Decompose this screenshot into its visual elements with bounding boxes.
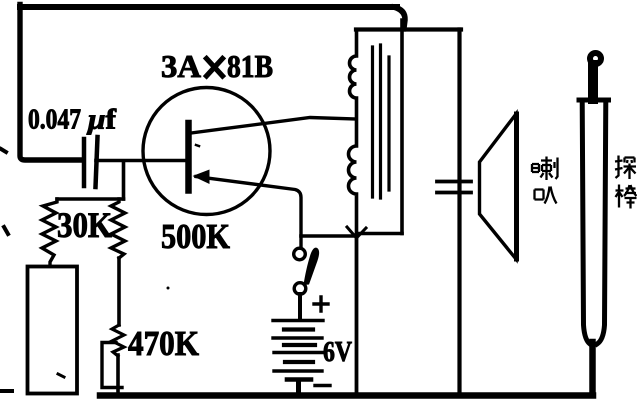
transistor Q1 emitter line bbox=[196, 177, 301, 249]
resistor R3 470K zigzag bbox=[112, 325, 124, 356]
wire: probe tip to bottom rail bbox=[589, 342, 596, 394]
speaker LS1 terminal lines bbox=[437, 180, 471, 184]
transistor Q1 circle bbox=[143, 88, 270, 215]
scan speck dot below 30K bbox=[167, 287, 170, 290]
wire: left frame vertical bbox=[20, 5, 82, 161]
resistor R1 30K zigzag bbox=[42, 199, 57, 266]
svg-text:3A: 3A bbox=[161, 48, 201, 84]
label probe (tan) bbox=[615, 156, 636, 180]
scan speck left edge lower bbox=[4, 227, 8, 234]
wire: branch horizontal to 30K bbox=[57, 197, 124, 201]
junction Y serif at transformer bottom bbox=[347, 227, 366, 238]
transistor Q1 base bar bbox=[185, 123, 192, 191]
svg-text:470K: 470K bbox=[128, 324, 199, 363]
label - (battery negative) bbox=[315, 384, 330, 387]
transistor Q1 collector line bbox=[191, 118, 356, 134]
transformer T1 core lines bbox=[371, 47, 374, 197]
svg-text:6V: 6V bbox=[323, 337, 352, 368]
wire: transformer top to speaker drop bbox=[404, 27, 461, 31]
label probe (bang) bbox=[616, 185, 637, 209]
wire: capacitor to base bbox=[96, 159, 187, 163]
transistor Q1 emitter arrow bbox=[193, 170, 210, 185]
transformer T1 primary (left winding with bumps) bbox=[349, 30, 357, 236]
wire: speaker drop vertical bbox=[457, 30, 461, 394]
wire: emitter node to transformer bottom bbox=[301, 234, 356, 238]
wire: R3 to bottom rail bbox=[116, 355, 120, 394]
scan speck bottom left corner bbox=[0, 389, 12, 393]
wire: top rail bbox=[20, 4, 397, 10]
resistor R3 box outline bbox=[102, 343, 122, 388]
transformer T1 secondary (right edge) bbox=[400, 20, 404, 234]
probe neck bbox=[588, 65, 598, 99]
speaker LS1 horn bbox=[480, 114, 517, 259]
wire: battery to bottom rail bbox=[296, 380, 301, 396]
capacitor C1 right plate bbox=[96, 137, 98, 187]
label X (heavy) of 3AX81B bbox=[207, 59, 223, 77]
switch S1 blade bbox=[304, 248, 320, 285]
transformer T1 top edge bbox=[356, 27, 404, 31]
svg-text:μf: μf bbox=[86, 104, 117, 136]
scan speck near base bar bbox=[196, 145, 199, 146]
electrode box (probe terminal) bbox=[28, 267, 78, 394]
switch S1 lower contact bbox=[294, 283, 306, 295]
svg-text:500K: 500K bbox=[161, 217, 230, 256]
svg-text:30K: 30K bbox=[57, 205, 112, 245]
scan speck in electrode box bbox=[58, 374, 64, 377]
wire: switch to battery bbox=[298, 294, 302, 318]
battery BT1 plates bbox=[273, 321, 324, 380]
scan speck left edge upper bbox=[1, 149, 6, 152]
capacitor C1 0.047uF left plate bbox=[82, 139, 87, 186]
transformer T1 bottom edge bbox=[357, 232, 402, 236]
svg-text:81B: 81B bbox=[227, 48, 273, 84]
probe handle bbox=[579, 100, 609, 344]
svg-text:0.047: 0.047 bbox=[28, 104, 81, 136]
label speaker (la) bbox=[532, 157, 558, 181]
bottom rail bbox=[100, 392, 593, 399]
label + (battery positive) bbox=[314, 297, 328, 311]
wire: top rail jog into transformer right edge bbox=[394, 7, 405, 28]
label speaker (ba) bbox=[535, 187, 557, 204]
probe ring bbox=[590, 53, 601, 64]
wire: R2 to R3 bbox=[117, 258, 121, 325]
wire: branch drop from base wire bbox=[122, 161, 126, 199]
wire: transformer bottom junction to bottom rail bbox=[355, 235, 359, 395]
switch S1 upper contact bbox=[294, 248, 306, 260]
resistor R2 500K zigzag bbox=[111, 199, 125, 258]
